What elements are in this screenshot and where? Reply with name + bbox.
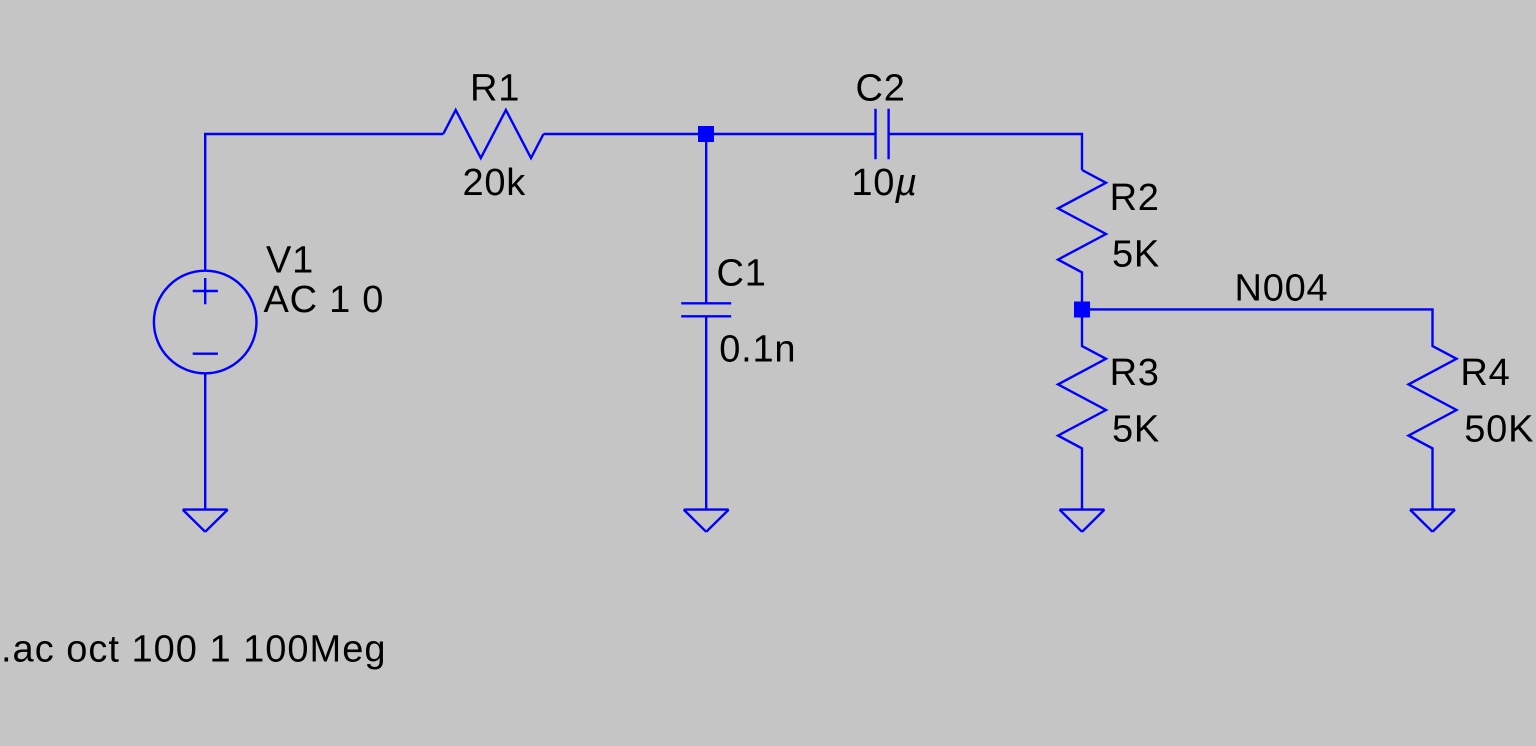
- svg-text:R3: R3: [1110, 352, 1160, 394]
- svg-text:AC 1 0: AC 1 0: [264, 279, 385, 321]
- svg-text:C2: C2: [856, 68, 906, 110]
- svg-text:R2: R2: [1110, 177, 1160, 219]
- svg-text:.ac oct 100 1 100Meg: .ac oct 100 1 100Meg: [1, 628, 386, 670]
- svg-text:0.1n: 0.1n: [719, 328, 796, 370]
- svg-text:N004: N004: [1235, 267, 1329, 309]
- svg-text:V1: V1: [266, 240, 314, 282]
- svg-text:50K: 50K: [1464, 409, 1534, 451]
- svg-text:R4: R4: [1460, 352, 1510, 394]
- svg-text:20k: 20k: [463, 162, 527, 204]
- svg-text:5K: 5K: [1112, 409, 1160, 451]
- svg-text:10µ: 10µ: [851, 162, 917, 204]
- svg-text:5K: 5K: [1112, 234, 1160, 276]
- svg-text:R1: R1: [470, 68, 520, 110]
- svg-text:C1: C1: [717, 253, 767, 295]
